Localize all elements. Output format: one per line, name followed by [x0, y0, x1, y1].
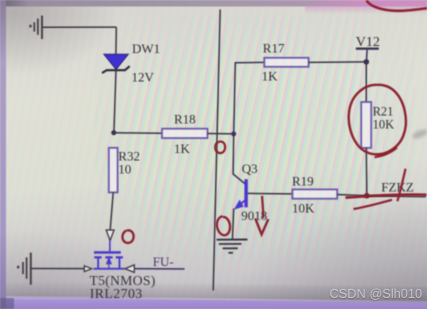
wire top ground to corner — [42, 26, 116, 28]
svg-text:R21: R21 — [373, 104, 394, 118]
bezel bottom shadow — [0, 281, 427, 301]
wire T5 to FU- — [134, 268, 184, 270]
red squiggle top-right — [367, 1, 427, 11]
wire node C to R21 — [365, 62, 367, 102]
red circle at T5 gate arrow — [122, 230, 133, 243]
svg-text:10K: 10K — [292, 201, 315, 216]
node B junction dot — [231, 131, 236, 136]
red circle at R18 output crossing — [215, 142, 225, 154]
wire long vertical net — [213, 10, 220, 291]
svg-text:Q3: Q3 — [242, 161, 258, 176]
red pen marks — [122, 1, 427, 243]
wire R19 to node D — [337, 195, 367, 196]
svg-text:IRL2703: IRL2703 — [90, 286, 143, 301]
transistor Q3 — [234, 179, 248, 209]
wire R18 to node B — [208, 133, 234, 135]
resistor R19 — [292, 189, 337, 198]
node C junction dot — [364, 59, 370, 65]
resistor R18 — [162, 129, 208, 138]
transistor T5 NMOS — [94, 241, 125, 270]
red stroke along FZKZ wire — [346, 195, 427, 198]
bezel top band — [0, 0, 427, 7]
red circle on vertical net near ground — [217, 216, 230, 235]
svg-text:FZKZ: FZKZ — [381, 180, 414, 195]
svg-text:10K: 10K — [373, 118, 395, 132]
open arrow into gate — [106, 230, 114, 241]
resistor R32 — [109, 148, 118, 193]
svg-text:V12: V12 — [356, 35, 380, 50]
dark bottom-left corner — [0, 298, 14, 309]
svg-text:R18: R18 — [174, 112, 196, 127]
power port V12 — [356, 48, 379, 62]
red tail below R21 ellipse — [375, 148, 398, 158]
wire node B down to Q3 collector — [233, 134, 245, 184]
svg-text:1K: 1K — [174, 141, 191, 156]
ground bottom-left — [17, 253, 31, 285]
ground middle — [217, 240, 248, 253]
svg-text:1K: 1K — [262, 69, 279, 84]
open arrow left lead — [84, 266, 91, 272]
resistor R21 — [361, 102, 371, 148]
wire R17 to node C — [309, 61, 367, 64]
red slash through FZKZ — [397, 169, 405, 201]
svg-text:10: 10 — [118, 162, 131, 177]
grey smudge right of R21 — [411, 128, 427, 141]
bezel bottom band — [0, 297, 427, 309]
wire node A to R18 — [114, 132, 162, 135]
bezel left band — [0, 0, 6, 309]
svg-text:R17: R17 — [263, 41, 285, 56]
wire R32 to T5 gate arrow — [110, 192, 113, 230]
wire ground to T5 — [31, 268, 85, 270]
wire node B up to R17 corner — [234, 62, 265, 133]
wire Q3 emitter to ground — [232, 209, 233, 240]
wire DW1 to node A — [114, 70, 116, 132]
svg-text:FU-: FU- — [153, 254, 174, 269]
svg-text:CSDN @Slh010: CSDN @Slh010 — [330, 286, 423, 301]
svg-text:R19: R19 — [292, 173, 314, 188]
wire R21 to node D — [365, 148, 368, 196]
ground top-left — [29, 16, 42, 39]
open arrow right lead — [125, 265, 134, 273]
wire Q3 base to R19 — [248, 192, 293, 195]
wire corner down to DW1 — [115, 27, 117, 54]
zener diode DW1 — [102, 54, 130, 73]
svg-text:DW1: DW1 — [132, 41, 160, 56]
red underline curve below FZKZ — [354, 200, 393, 209]
wire node D to FZKZ — [367, 196, 426, 197]
node A junction dot — [111, 130, 116, 135]
node D junction dot — [364, 193, 370, 199]
red check mark at 9018 — [262, 196, 264, 218]
red ellipse around R21 — [349, 85, 406, 154]
svg-text:12V: 12V — [132, 70, 155, 85]
moire overlay — [95, 15, 415, 260]
resistor R17 — [264, 58, 308, 67]
